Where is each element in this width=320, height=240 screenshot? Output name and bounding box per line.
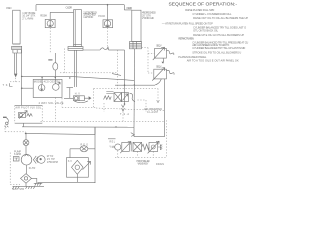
arrow at bus corner — [131, 133, 135, 137]
svg-text:AIR TO A TOO OILS E OUT AIR PA: AIR TO A TOO OILS E OUT AIR PANEL OK — [187, 59, 239, 63]
dashed pump drain — [10, 153, 20, 185]
svg-text:CYLDR: CYLDR — [66, 6, 73, 10]
wire top bus — [36, 4, 124, 6]
box1 left check circle — [41, 77, 43, 84]
relief valve V2 — [154, 69, 167, 79]
motor circle — [38, 156, 46, 164]
pilot box bottom edge — [15, 122, 42, 124]
cylinder CYL2 rod — [74, 50, 76, 87]
dashed drop x93.6 — [93, 89, 95, 108]
svg-text:RAISE UP E OIL GO PSI ALL BLOW: RAISE UP E OIL GO PSI ALL BLOWERS UP — [193, 33, 244, 37]
dashed left of cyl3 — [116, 50, 118, 89]
wire mid bus horizontal — [22, 76, 134, 80]
svg-text:2" L-RAM: 2" L-RAM — [22, 16, 33, 20]
svg-text:PLATEN RAISED PANEL: PLATEN RAISED PANEL — [178, 55, 207, 59]
dashed D4 — [60, 72, 117, 74]
pump circle — [21, 154, 32, 165]
text smudges — [3, 6, 165, 192]
pilot valve cluster: 2-curve — [130, 93, 135, 101]
cylinder CYL1 rod — [15, 53, 17, 74]
wire down pipe from cyl3 bottom — [133, 49, 136, 127]
svg-text:---- AT RETURN PLATEN FULL SPE: ---- AT RETURN PLATEN FULL SPEED ON TOP — [162, 22, 213, 26]
wire L2 pump bus — [26, 127, 95, 134]
proportional valve chain — [108, 138, 116, 140]
bottom tank line — [38, 181, 96, 184]
tank baseline with hatches — [13, 185, 45, 187]
filter diamond — [21, 174, 32, 184]
svg-text:AIR PILOT VLV SOL: AIR PILOT VLV SOL — [15, 106, 42, 109]
dashed D1 — [41, 120, 165, 122]
svg-text:SEQ.V: SEQ.V — [156, 65, 162, 68]
wire corner down to pilot cluster — [124, 50, 126, 104]
dashed D2 long — [96, 108, 164, 111]
sequence of operation text block — [162, 1, 249, 62]
dashed short left of cyl2 base — [64, 49, 66, 73]
TK bracket — [10, 83, 13, 86]
wire pipe cyl2 base to down corner with break squiggle — [83, 49, 100, 51]
svg-text:REG: REG — [81, 144, 89, 147]
lever symbol — [3, 116, 7, 118]
wire right vertical from V2 down — [164, 79, 166, 137]
pilot valve cluster: tank bars — [106, 92, 113, 94]
svg-text:RAISE OUT OIL TO OIL ALL BLOWE: RAISE OUT OIL TO OIL ALL BLOWERS THE UP — [193, 16, 248, 20]
filter side branch to tank — [32, 178, 43, 183]
check valve A riser — [49, 12, 51, 19]
cylinder CYL2 piston line — [74, 44, 82, 46]
wire vertical from cyl1 base down to pilot box — [21, 50, 23, 105]
dashed pilot lines — [5, 28, 166, 185]
dashed box sides — [15, 105, 42, 123]
pilot valve cluster: X box — [114, 93, 122, 102]
check valve B riser — [107, 5, 109, 20]
wire L1 line y127 — [22, 126, 134, 128]
svg-text:VALVE ASSY: VALVE ASSY — [138, 163, 149, 166]
svg-text:CLAMP: CLAMP — [147, 111, 158, 114]
dashed pilot L right of cluster — [137, 100, 146, 112]
dashed TK stub — [10, 78, 21, 82]
check valve A body — [45, 19, 55, 27]
svg-text:CYLINDER BALANCED TRY TILL UP: CYLINDER BALANCED TRY TILL UP LAST IN MD — [192, 46, 245, 50]
svg-text:SEQ.V: SEQ.V — [156, 44, 162, 47]
dashed drop from box1 bottom — [55, 98, 57, 122]
wire stub from top bus down at left — [35, 5, 37, 11]
svg-text:STROKE OIL PSI TO OIL ALL BLOW: STROKE OIL PSI TO OIL ALL BLOWERS U — [192, 50, 241, 54]
svg-text:RETRACT PLATEN: RETRACT PLATEN — [178, 37, 194, 41]
svg-text:P.O.CK: P.O.CK — [98, 15, 105, 18]
gauge oval above box1 — [48, 59, 52, 61]
wire D4 solid tail — [112, 74, 121, 76]
dashed lever to bus — [5, 125, 26, 132]
dashed below cluster — [122, 112, 124, 122]
svg-text:REL: REL — [110, 142, 116, 144]
solenoid valve box U1 — [33, 79, 62, 97]
svg-text:VLV: VLV — [110, 147, 116, 149]
svg-text:TK: TK — [3, 83, 8, 87]
cylinder CYL3 bottom box with hatches — [130, 42, 142, 49]
junction dots mid bus — [21, 76, 23, 78]
stub to L1 — [22, 123, 24, 127]
svg-text:6 GPM: 6 GPM — [14, 153, 21, 156]
svg-text:FLTR: FLTR — [29, 167, 36, 170]
dashed pilot to V1/V2 — [142, 48, 155, 74]
pilot box inner rect — [18, 113, 25, 118]
cylinder CYL1 body — [13, 10, 20, 44]
wire y85 line — [115, 84, 155, 86]
dashed below check B — [107, 28, 109, 50]
svg-text:MODEL 4CG OS3 750: MODEL 4CG OS3 750 — [34, 79, 61, 83]
pump label box — [13, 157, 19, 161]
dashed below check A — [49, 28, 51, 53]
cylinder CYL1 flange — [12, 46, 22, 49]
coupling — [33, 156, 38, 164]
bottom box diamond — [72, 160, 84, 174]
svg-text:CYLD: CYLD — [6, 6, 12, 10]
svg-text:RAISE PLATEN FULL SPD: RAISE PLATEN FULL SPD — [185, 8, 214, 12]
cylinder CYL2 base — [68, 47, 83, 51]
bottom box body — [67, 158, 89, 178]
check valve B body — [103, 20, 113, 28]
V2 drain curl to y85 line — [155, 79, 161, 85]
svg-text:T.S.A: T.S.A — [120, 113, 129, 116]
cylinder CYL1 piston lines — [13, 44, 20, 46]
svg-text:2" ROD CHK: 2" ROD CHK — [142, 16, 154, 20]
svg-text:H.V: H.V — [75, 93, 80, 96]
svg-text:1 1/2" ROD: 1 1/2" ROD — [83, 15, 93, 19]
cylinder CYL3 body — [132, 10, 141, 41]
pilot box spring — [27, 114, 33, 117]
svg-text:P.O.CHK: P.O.CHK — [40, 15, 47, 18]
wire port line into box1 left — [22, 87, 34, 89]
box1 right gauge circle — [53, 84, 60, 91]
pilot valve cluster: arrow box — [122, 93, 129, 102]
cylinder CYL2 body — [74, 10, 82, 47]
wire pipe cyl1 head — [50, 11, 73, 13]
svg-text:1750 RPM: 1750 RPM — [47, 161, 58, 164]
dashed D2a — [62, 98, 96, 107]
svg-text:CYLINDER + CYLINDER RAM FULL: CYLINDER + CYLINDER RAM FULL — [192, 12, 232, 16]
dashed chain drops — [115, 120, 166, 157]
bottom box oval valve — [70, 148, 95, 150]
pilot valve cluster: solenoid arrows below — [122, 105, 125, 111]
svg-text:OTL ONTO BACK OIL: OTL ONTO BACK OIL — [193, 29, 219, 33]
svg-text:DRAIN: DRAIN — [156, 163, 164, 166]
wire main vertical to bottom box — [94, 127, 96, 183]
svg-text:SV: SV — [68, 160, 72, 163]
pilot box arrow — [19, 111, 27, 119]
pilot valve cluster: spring left — [104, 96, 112, 100]
pump to filter — [26, 165, 28, 174]
dashed pilot left of cluster — [103, 103, 105, 112]
cylinder CYL1 gland — [12, 48, 22, 53]
wire L1 corner down and to right vertical — [134, 127, 165, 136]
svg-text:SEQUENCE OF OPERATION:-: SEQUENCE OF OPERATION:- — [169, 1, 238, 6]
svg-text:4 WAY SOL VALVE: 4 WAY SOL VALVE — [39, 101, 64, 105]
hand valve row under cyl2 rod — [64, 88, 73, 99]
svg-text:SUCT. STR: SUCT. STR — [12, 188, 24, 191]
relief valve V1 — [155, 49, 167, 59]
pilot box (air pilot valve) top edge — [15, 104, 42, 106]
pump check circle — [25, 133, 27, 139]
dashed D3 hand cluster top — [94, 89, 158, 102]
svg-text:CYLDR: CYLDR — [126, 6, 132, 10]
wire top bus right corner to CYL3 — [124, 5, 132, 10]
